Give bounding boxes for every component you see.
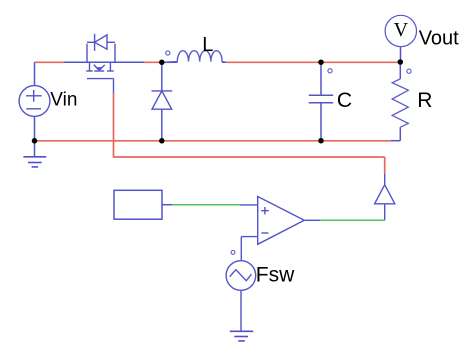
svg-text:R: R [417, 89, 432, 112]
svg-text:Vout: Vout [419, 28, 459, 50]
svg-text:Vin: Vin [50, 90, 77, 111]
svg-text:C: C [337, 89, 352, 112]
svg-text:L: L [202, 34, 213, 56]
svg-text:Fsw: Fsw [256, 263, 295, 286]
svg-text:V: V [394, 19, 409, 41]
